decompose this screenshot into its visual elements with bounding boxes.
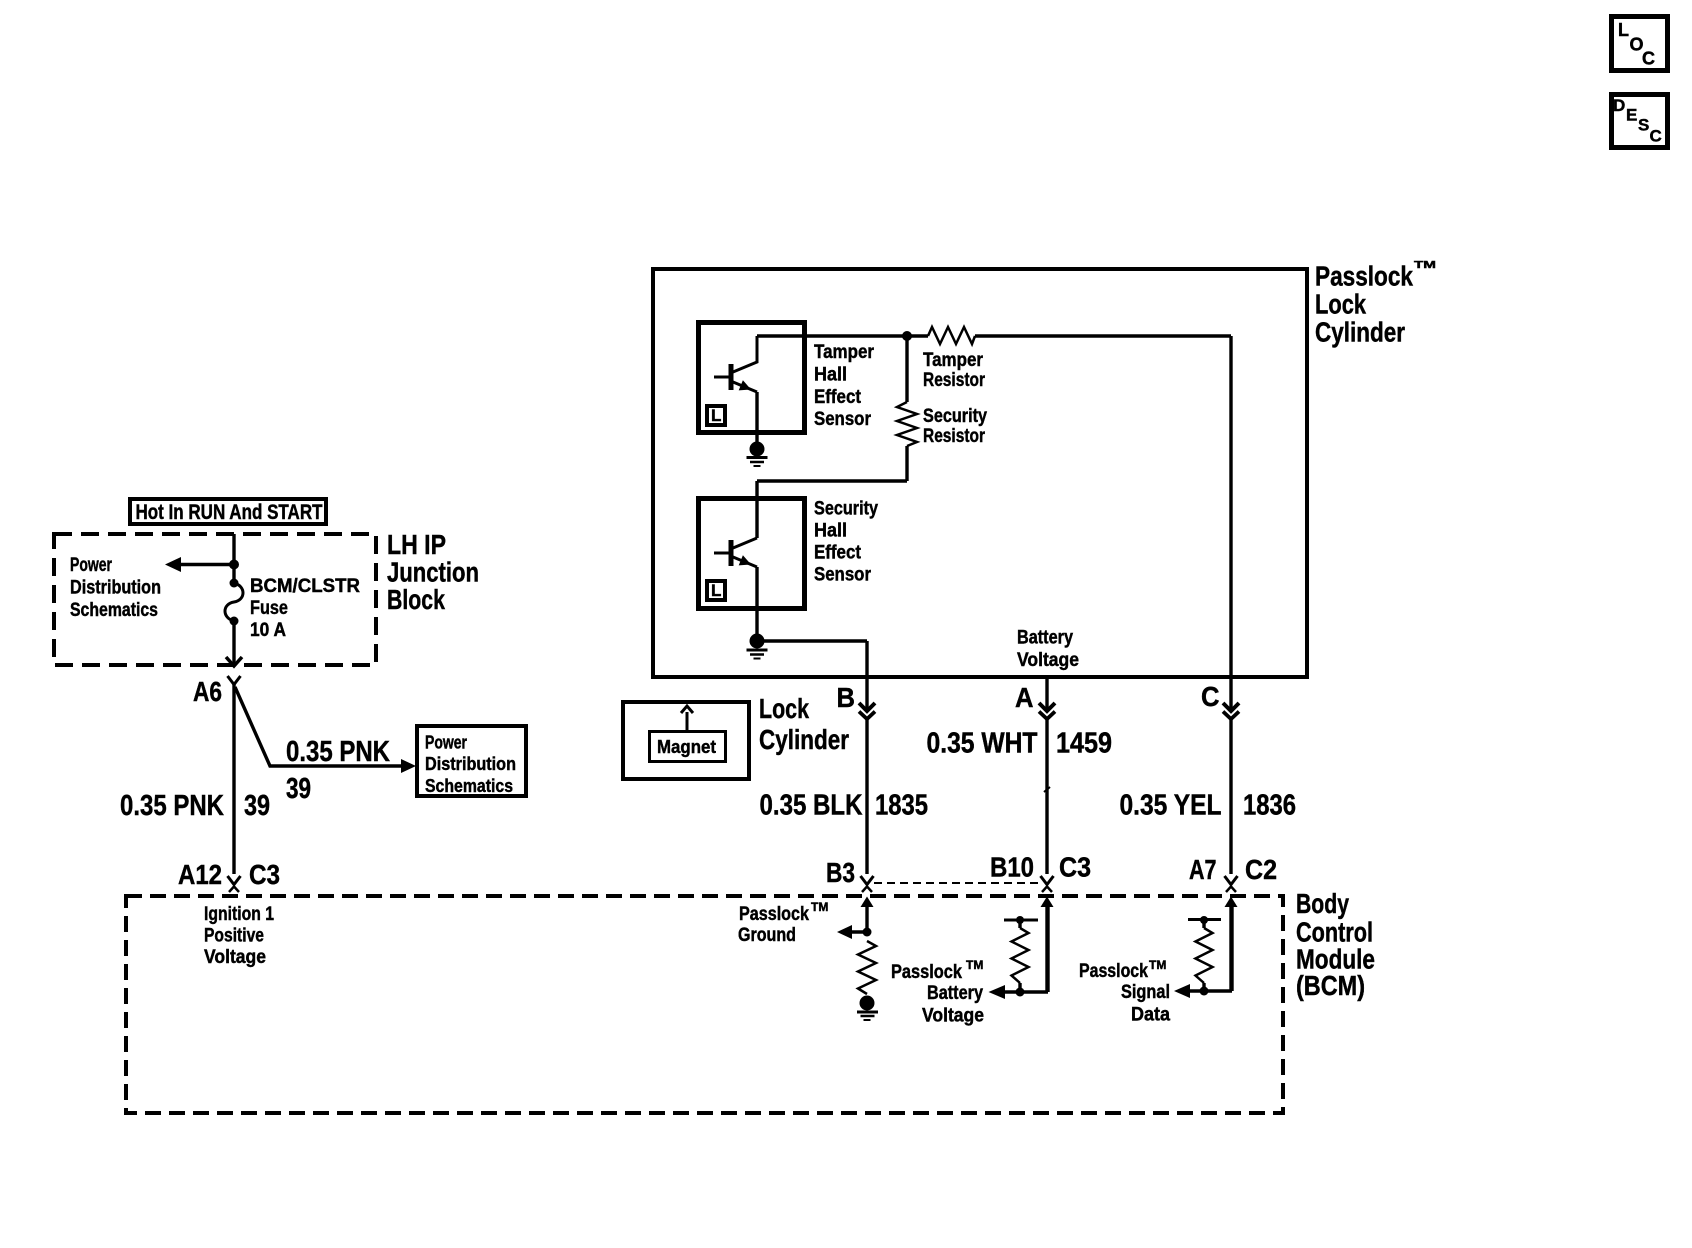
svg-text:1835: 1835: [875, 790, 928, 822]
svg-text:C: C: [1650, 127, 1662, 146]
svg-text:Battery: Battery: [927, 983, 983, 1004]
svg-text:C3: C3: [1059, 852, 1091, 883]
svg-text:Hall: Hall: [814, 521, 847, 542]
svg-text:10 A: 10 A: [250, 620, 286, 641]
svg-text:Distribution: Distribution: [70, 578, 161, 599]
svg-text:E: E: [1626, 106, 1637, 125]
svg-text:1459: 1459: [1056, 728, 1112, 760]
svg-text:Effect: Effect: [814, 387, 862, 408]
svg-text:Resistor: Resistor: [923, 370, 985, 391]
svg-text:0.35 PNK: 0.35 PNK: [120, 790, 224, 822]
svg-text:39: 39: [244, 790, 270, 822]
svg-text:0.35 YEL: 0.35 YEL: [1120, 790, 1222, 822]
svg-text:0.35 WHT: 0.35 WHT: [927, 728, 1038, 760]
svg-text:Power: Power: [70, 555, 112, 576]
svg-text:Sensor: Sensor: [814, 565, 872, 586]
svg-text:L: L: [1618, 20, 1629, 40]
svg-text:A6: A6: [193, 676, 222, 707]
svg-text:TM: TM: [1149, 958, 1166, 972]
svg-text:LH IP: LH IP: [387, 529, 446, 560]
svg-text:0.35 PNK: 0.35 PNK: [286, 736, 390, 768]
svg-text:Security: Security: [814, 499, 878, 520]
svg-text:A: A: [1015, 682, 1034, 713]
svg-text:Positive: Positive: [204, 926, 264, 947]
svg-text:A12: A12: [178, 859, 222, 890]
svg-text:Ignition 1: Ignition 1: [204, 904, 274, 925]
svg-text:Junction: Junction: [387, 557, 479, 588]
svg-text:D: D: [1613, 96, 1625, 115]
svg-text:Hot In RUN And START: Hot In RUN And START: [136, 501, 323, 524]
svg-text:Data: Data: [1131, 1005, 1170, 1026]
svg-text:Distribution: Distribution: [425, 754, 516, 774]
svg-text:C2: C2: [1245, 854, 1277, 885]
svg-text:TM: TM: [966, 958, 983, 972]
svg-text:Resistor: Resistor: [923, 426, 985, 447]
svg-text:Tamper: Tamper: [923, 350, 984, 371]
svg-text:Voltage: Voltage: [1017, 650, 1079, 671]
svg-text:Schematics: Schematics: [70, 600, 158, 621]
svg-text:Passlock: Passlock: [891, 962, 962, 983]
svg-text:Hall: Hall: [814, 365, 847, 386]
svg-text:B10: B10: [990, 852, 1034, 883]
svg-text:Tamper: Tamper: [814, 342, 875, 363]
svg-text:0.35 BLK: 0.35 BLK: [760, 790, 863, 822]
svg-text:Cylinder: Cylinder: [1315, 317, 1405, 348]
svg-text:C3: C3: [249, 859, 280, 890]
svg-text:Voltage: Voltage: [204, 947, 266, 968]
svg-text:Security: Security: [923, 406, 987, 427]
svg-text:Sensor: Sensor: [814, 409, 872, 430]
svg-text:B3: B3: [826, 857, 855, 888]
svg-text:Body: Body: [1296, 888, 1349, 919]
svg-text:S: S: [1638, 116, 1649, 135]
svg-text:Schematics: Schematics: [425, 776, 513, 796]
svg-text:Passlock: Passlock: [739, 904, 809, 925]
svg-text:TM: TM: [811, 900, 828, 914]
svg-text:Power: Power: [425, 733, 467, 753]
svg-text:Lock: Lock: [759, 693, 809, 724]
svg-text:Battery: Battery: [1017, 628, 1073, 649]
svg-text:1836: 1836: [1243, 790, 1296, 822]
svg-text:39: 39: [286, 773, 311, 805]
svg-text:BCM/CLSTR: BCM/CLSTR: [250, 576, 360, 597]
svg-text:C: C: [1201, 681, 1220, 712]
svg-text:Effect: Effect: [814, 543, 862, 564]
svg-text:TM: TM: [1414, 260, 1436, 271]
svg-text:L: L: [711, 406, 721, 425]
svg-text:Cylinder: Cylinder: [759, 724, 849, 755]
svg-text:Passlock: Passlock: [1079, 961, 1148, 982]
svg-text:C: C: [1642, 49, 1655, 69]
svg-text:Fuse: Fuse: [250, 598, 288, 619]
svg-text:Lock: Lock: [1315, 289, 1366, 320]
svg-text:Signal: Signal: [1121, 982, 1170, 1003]
svg-text:B: B: [837, 682, 856, 713]
svg-text:L: L: [711, 581, 721, 600]
svg-text:Magnet: Magnet: [657, 737, 716, 757]
svg-text:A7: A7: [1189, 854, 1217, 885]
svg-text:Block: Block: [387, 584, 445, 615]
svg-text:Voltage: Voltage: [922, 1006, 984, 1027]
svg-text:Passlock: Passlock: [1315, 261, 1413, 292]
svg-text:(BCM): (BCM): [1296, 970, 1365, 1001]
svg-text:Ground: Ground: [738, 925, 796, 946]
